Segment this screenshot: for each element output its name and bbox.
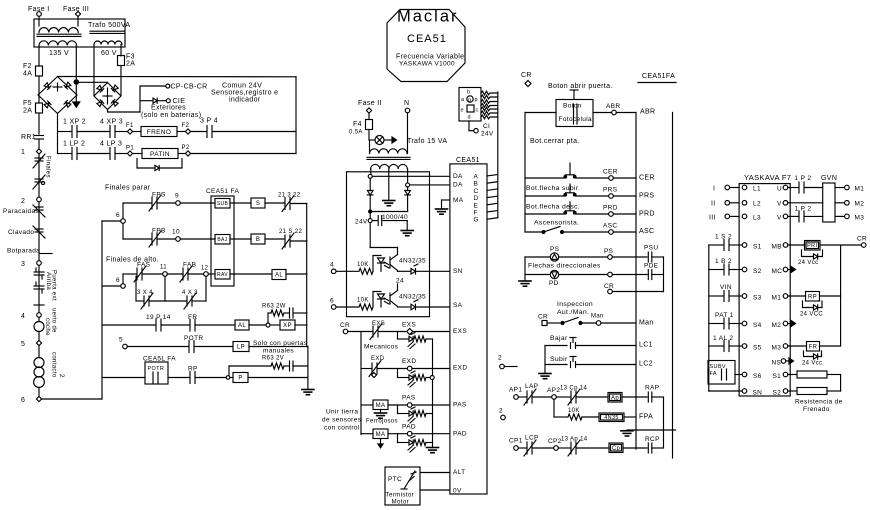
svg-text:M2: M2 [772, 322, 782, 329]
svg-text:VIN: VIN [720, 284, 732, 291]
ground flechas [524, 275, 526, 281]
svg-text:EXD: EXD [402, 358, 416, 365]
relay contact box S [251, 198, 265, 208]
wire 0V [420, 489, 450, 491]
wire DA2 to CEA51 [410, 184, 450, 186]
terminal SN [742, 389, 747, 394]
relay coil box P [230, 377, 233, 379]
wire Fase I to transformer [38, 16, 40, 26]
terminal CI 24V [468, 121, 470, 131]
svg-text:Subir: Subir [550, 356, 568, 363]
ground of V3 [302, 389, 314, 391]
wire AP2 to contact [556, 396, 570, 398]
wire to Ap box [577, 396, 608, 398]
svg-text:FA: FA [710, 371, 717, 377]
svg-text:PS: PS [604, 248, 614, 255]
wire LP to vertical V3 [249, 346, 308, 348]
terminal S5 [742, 344, 747, 349]
terminal M2 [835, 202, 845, 204]
wire SN [416, 270, 450, 272]
vertical sensor common left [360, 332, 362, 435]
wire PD to PDE [612, 274, 647, 276]
chassis arrow [75, 84, 77, 102]
svg-text:indicador: indicador [229, 97, 261, 104]
wire bridge D2 bottom to CP-CB-CR [108, 110, 141, 113]
svg-text:Bot.flecha subir: Bot.flecha subir [526, 185, 579, 192]
svg-text:L1: L1 [753, 186, 761, 193]
svg-text:9: 9 [175, 193, 179, 200]
wire CP1 to LCP [518, 447, 526, 449]
svg-text:3: 3 [21, 261, 25, 268]
wire M1 to RP [788, 295, 806, 297]
rail flechas left [524, 257, 526, 275]
vertical V3 common [306, 204, 308, 347]
push button boton [570, 89, 578, 91]
svg-text:S3: S3 [753, 295, 762, 302]
svg-text:CP2: CP2 [548, 438, 562, 445]
relay box MA pad [373, 429, 388, 439]
svg-text:6: 6 [330, 298, 334, 305]
svg-text:M3: M3 [855, 215, 865, 222]
relay box RAV in CEA51 FA [215, 270, 230, 280]
svg-text:21 S 22: 21 S 22 [279, 229, 302, 235]
terminal 11 [143, 273, 163, 275]
svg-text:2: 2 [58, 374, 64, 378]
svg-text:XP: XP [283, 323, 292, 329]
svg-text:SA: SA [453, 302, 463, 309]
opto box 4N35 [599, 413, 624, 422]
svg-text:uerto de: uerto de [51, 308, 57, 333]
wire CR to EXS contact [348, 331, 372, 333]
svg-text:CER: CER [603, 169, 618, 176]
svg-text:4A: 4A [23, 71, 32, 78]
svg-text:F5: F5 [23, 100, 32, 107]
svg-text:PRD: PRD [603, 205, 618, 212]
wire SUB to S [230, 202, 251, 204]
svg-text:ASC: ASC [603, 223, 617, 230]
wire to 24V rail [212, 131, 296, 133]
svg-text:1 P 2: 1 P 2 [795, 175, 812, 182]
svg-text:Clavado: Clavado [8, 229, 34, 236]
svg-text:G: G [474, 217, 479, 224]
left input rail [708, 245, 710, 391]
svg-text:Termistor: Termistor [386, 492, 415, 499]
wire diode to 24V node [369, 195, 371, 210]
svg-text:2: 2 [499, 408, 503, 415]
svg-text:4N32/35: 4N32/35 [399, 258, 426, 265]
terminal CP-CB-CR [166, 84, 170, 88]
wire RP right [820, 295, 841, 297]
wire PAS to box [412, 404, 450, 406]
wire chain 3-4 [38, 265, 40, 313]
door contact puerta exterior 1 [34, 271, 44, 273]
svg-text:II: II [711, 201, 716, 208]
ground MA pas [380, 410, 382, 413]
wire P1 to PATIN [132, 153, 142, 155]
freewheel diode loop of PATIN [137, 159, 154, 169]
svg-text:5: 5 [119, 337, 123, 344]
wire 4 to resistor [336, 270, 358, 272]
svg-text:Finales parar: Finales parar [105, 185, 151, 192]
svg-text:CR: CR [521, 72, 532, 79]
svg-text:Frecuencia Variable: Frecuencia Variable [396, 54, 464, 61]
wire 135V mid leg with node [75, 46, 77, 81]
wire B to contact 21-S-22 [265, 238, 284, 240]
svg-text:1: 1 [21, 149, 25, 156]
wire FR right [820, 345, 841, 347]
svg-text:Comun 24V: Comun 24V [222, 83, 262, 90]
bridge rectifier D2 [94, 83, 121, 110]
svg-text:PAS: PAS [453, 402, 467, 409]
svg-text:Ap: Ap [611, 395, 619, 401]
push button desc [569, 202, 571, 211]
svg-text:Aut./Man.: Aut./Man. [557, 309, 589, 316]
svg-text:1 LP 2: 1 LP 2 [63, 141, 85, 148]
wire right leg to diode [407, 187, 409, 191]
wire PAD to box [412, 433, 450, 435]
wire MA to PAS terminal [388, 404, 407, 406]
wire SA [416, 306, 450, 308]
diode out SA [398, 306, 412, 308]
bridge rectifier D1 [38, 77, 77, 114]
svg-text:11: 11 [160, 265, 167, 271]
svg-text:24 Vcc: 24 Vcc [798, 260, 818, 266]
svg-text:R63 2W: R63 2W [262, 304, 286, 310]
wire row 19P14 [102, 324, 155, 326]
svg-text:F2: F2 [182, 123, 190, 129]
terminal 10 [158, 238, 176, 240]
node DA2 [406, 183, 410, 187]
wire CP2 to contact [558, 447, 570, 449]
terminal 12 [189, 273, 204, 275]
svg-text:24 Vcc: 24 Vcc [802, 361, 822, 367]
svg-text:PAS: PAS [402, 395, 416, 402]
svg-text:PAD: PAD [453, 431, 467, 438]
svg-text:AL: AL [275, 273, 283, 279]
relay box BAJ in CEA51 FA [215, 235, 230, 245]
wire 12 to RAV [208, 273, 215, 275]
wire 10 to CEA51FA [180, 238, 215, 240]
svg-text:Bajar: Bajar [550, 335, 568, 342]
wire RP to node [195, 377, 226, 379]
svg-text:PDE: PDE [644, 263, 659, 270]
wire PRD to bus [613, 213, 636, 215]
svg-text:RCP: RCP [645, 436, 660, 443]
vertical CR feedback [840, 245, 842, 346]
svg-text:B: B [474, 181, 479, 188]
wire to EXD terminal [378, 368, 407, 370]
wire RCP to loop [652, 447, 664, 449]
svg-text:CR: CR [538, 314, 548, 321]
svg-text:M3: M3 [772, 345, 782, 352]
svg-text:24V: 24V [481, 131, 494, 138]
svg-text:Trafo 500VA: Trafo 500VA [88, 22, 130, 29]
push button cerrar [569, 163, 571, 175]
svg-text:MA: MA [376, 403, 386, 409]
svg-text:NS: NS [772, 360, 782, 367]
svg-text:Man: Man [639, 320, 654, 327]
svg-text:A: A [474, 174, 479, 181]
svg-text:F4: F4 [353, 121, 362, 128]
sensor branch PAD [397, 434, 399, 443]
svg-text:SUBV: SUBV [710, 364, 726, 370]
svg-text:0.5A: 0.5A [349, 130, 363, 136]
svg-text:V: V [777, 201, 782, 208]
svg-text:4 LP 3: 4 LP 3 [100, 141, 122, 148]
sensor branch EXD [397, 369, 399, 378]
box drive YASKAVA F7 [739, 184, 790, 396]
svg-text:PRS: PRS [603, 187, 618, 194]
wire F3 to bridge D2 [120, 66, 122, 96]
svg-text:LC2: LC2 [639, 361, 653, 368]
wire N down [407, 113, 409, 154]
push button subir [569, 184, 571, 193]
svg-text:PAD: PAD [402, 424, 416, 431]
svg-text:4 XP 3: 4 XP 3 [100, 119, 123, 126]
svg-text:Resistencia de: Resistencia de [795, 399, 843, 406]
svg-text:2A: 2A [126, 61, 135, 68]
svg-text:3 X 4: 3 X 4 [137, 290, 153, 296]
wire ASC to bus [613, 231, 636, 233]
svg-text:24 VCC: 24 VCC [800, 312, 823, 318]
box SUBV FA [708, 361, 735, 385]
svg-text:Fase II: Fase II [358, 100, 382, 107]
node DA1 [368, 174, 372, 178]
rail bajar subir ground [544, 346, 546, 374]
svg-text:(solo en baterias): (solo en baterias) [141, 112, 201, 119]
svg-text:2: 2 [21, 198, 25, 205]
wire left leg to diode [369, 178, 371, 190]
svg-text:C: C [474, 188, 479, 195]
branch AP2 to 10K [553, 399, 555, 417]
svg-text:R63 2V: R63 2V [262, 356, 284, 362]
svg-text:F: F [474, 210, 478, 217]
svg-text:Fotocelula: Fotocelula [559, 116, 593, 123]
relay contact box Cp [609, 443, 623, 453]
wire P to vertical V3 [248, 377, 308, 379]
wire F5 to RR1 [38, 113, 40, 134]
svg-text:4: 4 [330, 262, 334, 269]
svg-text:S1: S1 [773, 373, 782, 380]
svg-text:Unir tierra: Unir tierra [326, 409, 358, 416]
snubber R63 2V [229, 365, 271, 367]
svg-text:CR: CR [857, 236, 867, 243]
svg-text:0V: 0V [453, 488, 462, 495]
wire 11 to FAB [167, 273, 183, 275]
contact finales 2 [35, 178, 43, 180]
svg-text:Boton: Boton [563, 103, 582, 110]
svg-text:ALT: ALT [453, 469, 466, 476]
ground of 1000/40 [401, 230, 413, 232]
wire cap to ground [406, 221, 408, 230]
relay contact box Ap [608, 393, 622, 403]
svg-text:2A: 2A [23, 108, 32, 115]
svg-text:FAS: FAS [137, 262, 151, 269]
svg-text:M1: M1 [772, 295, 782, 302]
wire ABR to bus [616, 112, 636, 114]
wire RAV to AL [230, 273, 272, 275]
terminal PAD [407, 431, 412, 436]
capacitor 1000/40 [377, 216, 379, 226]
wire FREND to F2 [177, 131, 186, 133]
svg-text:Ferrojosos: Ferrojosos [366, 419, 398, 425]
svg-text:RAP: RAP [645, 385, 659, 392]
wire node to bridge D2 top [79, 81, 108, 83]
svg-text:a: a [461, 97, 465, 103]
wire M3 to FR [788, 345, 807, 347]
switch ascensorista [525, 231, 541, 233]
svg-text:CER: CER [639, 175, 655, 182]
svg-text:1000/40: 1000/40 [382, 214, 408, 221]
wire PS to PSU [612, 256, 647, 258]
svg-text:ABR: ABR [606, 103, 620, 110]
svg-text:manuales: manuales [263, 348, 294, 355]
wire to AL box [195, 324, 235, 326]
svg-text:S1: S1 [753, 244, 762, 251]
wire Fase III to transformer [77, 16, 79, 26]
terminal CIE [158, 100, 166, 102]
svg-text:AL: AL [238, 323, 246, 329]
ground sensor bus [427, 447, 439, 449]
wire CIE branch [140, 100, 152, 102]
loop vertical RAP FPA [663, 397, 665, 430]
svg-text:6: 6 [21, 397, 25, 404]
svg-text:FR: FR [188, 314, 197, 321]
relay box MA pas [373, 400, 388, 410]
bypass box 3X4 4X3 [135, 276, 137, 301]
svg-text:Bot.cerrar pta.: Bot.cerrar pta. [530, 138, 580, 145]
opto U3 arrows [384, 298, 389, 301]
wire chain 2-3 [38, 202, 40, 261]
svg-text:PTC: PTC [388, 476, 402, 483]
svg-text:III: III [709, 215, 716, 222]
svg-text:b: b [467, 90, 470, 96]
wire 9 to CEA51FA [180, 202, 215, 204]
relay box FR [807, 342, 820, 352]
wire 24V rail from bridge D1 top [58, 76, 297, 78]
fuse F2 4A [36, 66, 43, 76]
svg-text:de sensores: de sensores [322, 417, 362, 424]
wire PRI to CR [820, 244, 861, 246]
wire EXD to box [412, 368, 450, 370]
svg-text:CEA51: CEA51 [456, 157, 480, 164]
svg-text:CI: CI [483, 123, 490, 130]
wire to Cp box [577, 447, 609, 449]
svg-text:F3: F3 [126, 54, 135, 61]
svg-text:CEA51 FA: CEA51 FA [206, 188, 239, 195]
transformer T2 core [367, 156, 410, 158]
svg-text:CP-CB-CR: CP-CB-CR [171, 84, 208, 91]
svg-text:DA: DA [453, 173, 463, 180]
node XP [266, 323, 270, 327]
svg-text:PD: PD [549, 280, 559, 287]
svg-text:EXD: EXD [371, 356, 385, 362]
terminal S3 [742, 294, 747, 299]
svg-text:P: P [238, 376, 242, 382]
opto U2 4N32/35 input [373, 256, 381, 272]
wire 10K to 4N35 [582, 416, 599, 418]
svg-text:1 P 2: 1 P 2 [795, 206, 812, 213]
svg-text:RR1: RR1 [21, 134, 36, 141]
terminal M3 [835, 215, 845, 217]
wire PDE to loop [652, 274, 664, 276]
relay contact box AL [272, 270, 286, 280]
terminal PAS [407, 403, 412, 408]
svg-text:PRD: PRD [639, 211, 655, 218]
svg-text:MC: MC [772, 268, 783, 275]
wire DA1 to CEA51 [372, 175, 450, 177]
wire BAJ to B [230, 238, 251, 240]
svg-text:ABR: ABR [640, 109, 655, 116]
pin stubs A-G [487, 175, 498, 177]
wire CER to bus [613, 177, 636, 179]
wire ladder left vertical [101, 221, 103, 399]
wire AL2 to node [249, 324, 266, 326]
wire 60V leg4 to F3 [120, 45, 122, 57]
wire LAP to AP2 [533, 396, 552, 398]
svg-text:F2: F2 [23, 63, 32, 70]
wire FPS row [123, 202, 151, 204]
svg-text:PRI: PRI [807, 243, 817, 249]
svg-text:c: c [476, 108, 479, 114]
svg-text:CR: CR [340, 322, 350, 329]
svg-text:P2: P2 [182, 145, 190, 151]
diode loop PRI 24Vcc [802, 250, 814, 257]
svg-text:YASKAVA F7: YASKAVA F7 [744, 173, 791, 182]
svg-text:con control: con control [324, 425, 360, 432]
wire FREND row [58, 131, 72, 133]
svg-text:EXS: EXS [453, 328, 467, 335]
wire POTR to LP [194, 346, 233, 348]
wire CR to loop [612, 291, 663, 293]
terminal S2 [742, 267, 747, 272]
relay contact box LP [233, 342, 249, 352]
diode D4 [405, 191, 411, 195]
svg-text:SN: SN [453, 268, 463, 275]
wire Ap to RAP [622, 396, 647, 398]
svg-text:10: 10 [172, 229, 180, 236]
wire row CEA5LFA [102, 377, 145, 379]
svg-text:1 XP 2: 1 XP 2 [63, 119, 86, 126]
contact finales 1 [35, 157, 43, 159]
wire PSU to loop [652, 256, 664, 258]
wire SN row [709, 390, 742, 392]
box Boston Fotocelula [556, 100, 593, 127]
svg-text:g: g [468, 98, 471, 104]
relay coil FREND [141, 127, 177, 137]
svg-text:PS: PS [550, 246, 560, 253]
svg-text:M1: M1 [855, 186, 865, 193]
wire resistor loop [840, 375, 842, 392]
svg-text:Solo con puertas: Solo con puertas [253, 340, 308, 347]
wire P2 to 24V rail [190, 153, 296, 155]
fuse F4 0.5A [366, 120, 373, 130]
terminal S1 [742, 243, 747, 248]
arrow to trafo [384, 139, 392, 141]
svg-text:S6: S6 [753, 373, 762, 380]
sensor bus vertical [432, 339, 434, 376]
pilot lamp [375, 136, 384, 145]
rail buttons left [524, 113, 526, 233]
svg-text:10K: 10K [357, 298, 369, 304]
svg-text:21 3 22: 21 3 22 [278, 193, 301, 199]
svg-text:AP2: AP2 [547, 387, 560, 394]
svg-text:GVN: GVN [821, 175, 837, 182]
svg-text:Finales: Finales [45, 156, 51, 178]
relay coil box XP [270, 324, 280, 326]
svg-text:EXS: EXS [402, 322, 416, 329]
wire S to contact 21-3-22 [265, 202, 284, 204]
